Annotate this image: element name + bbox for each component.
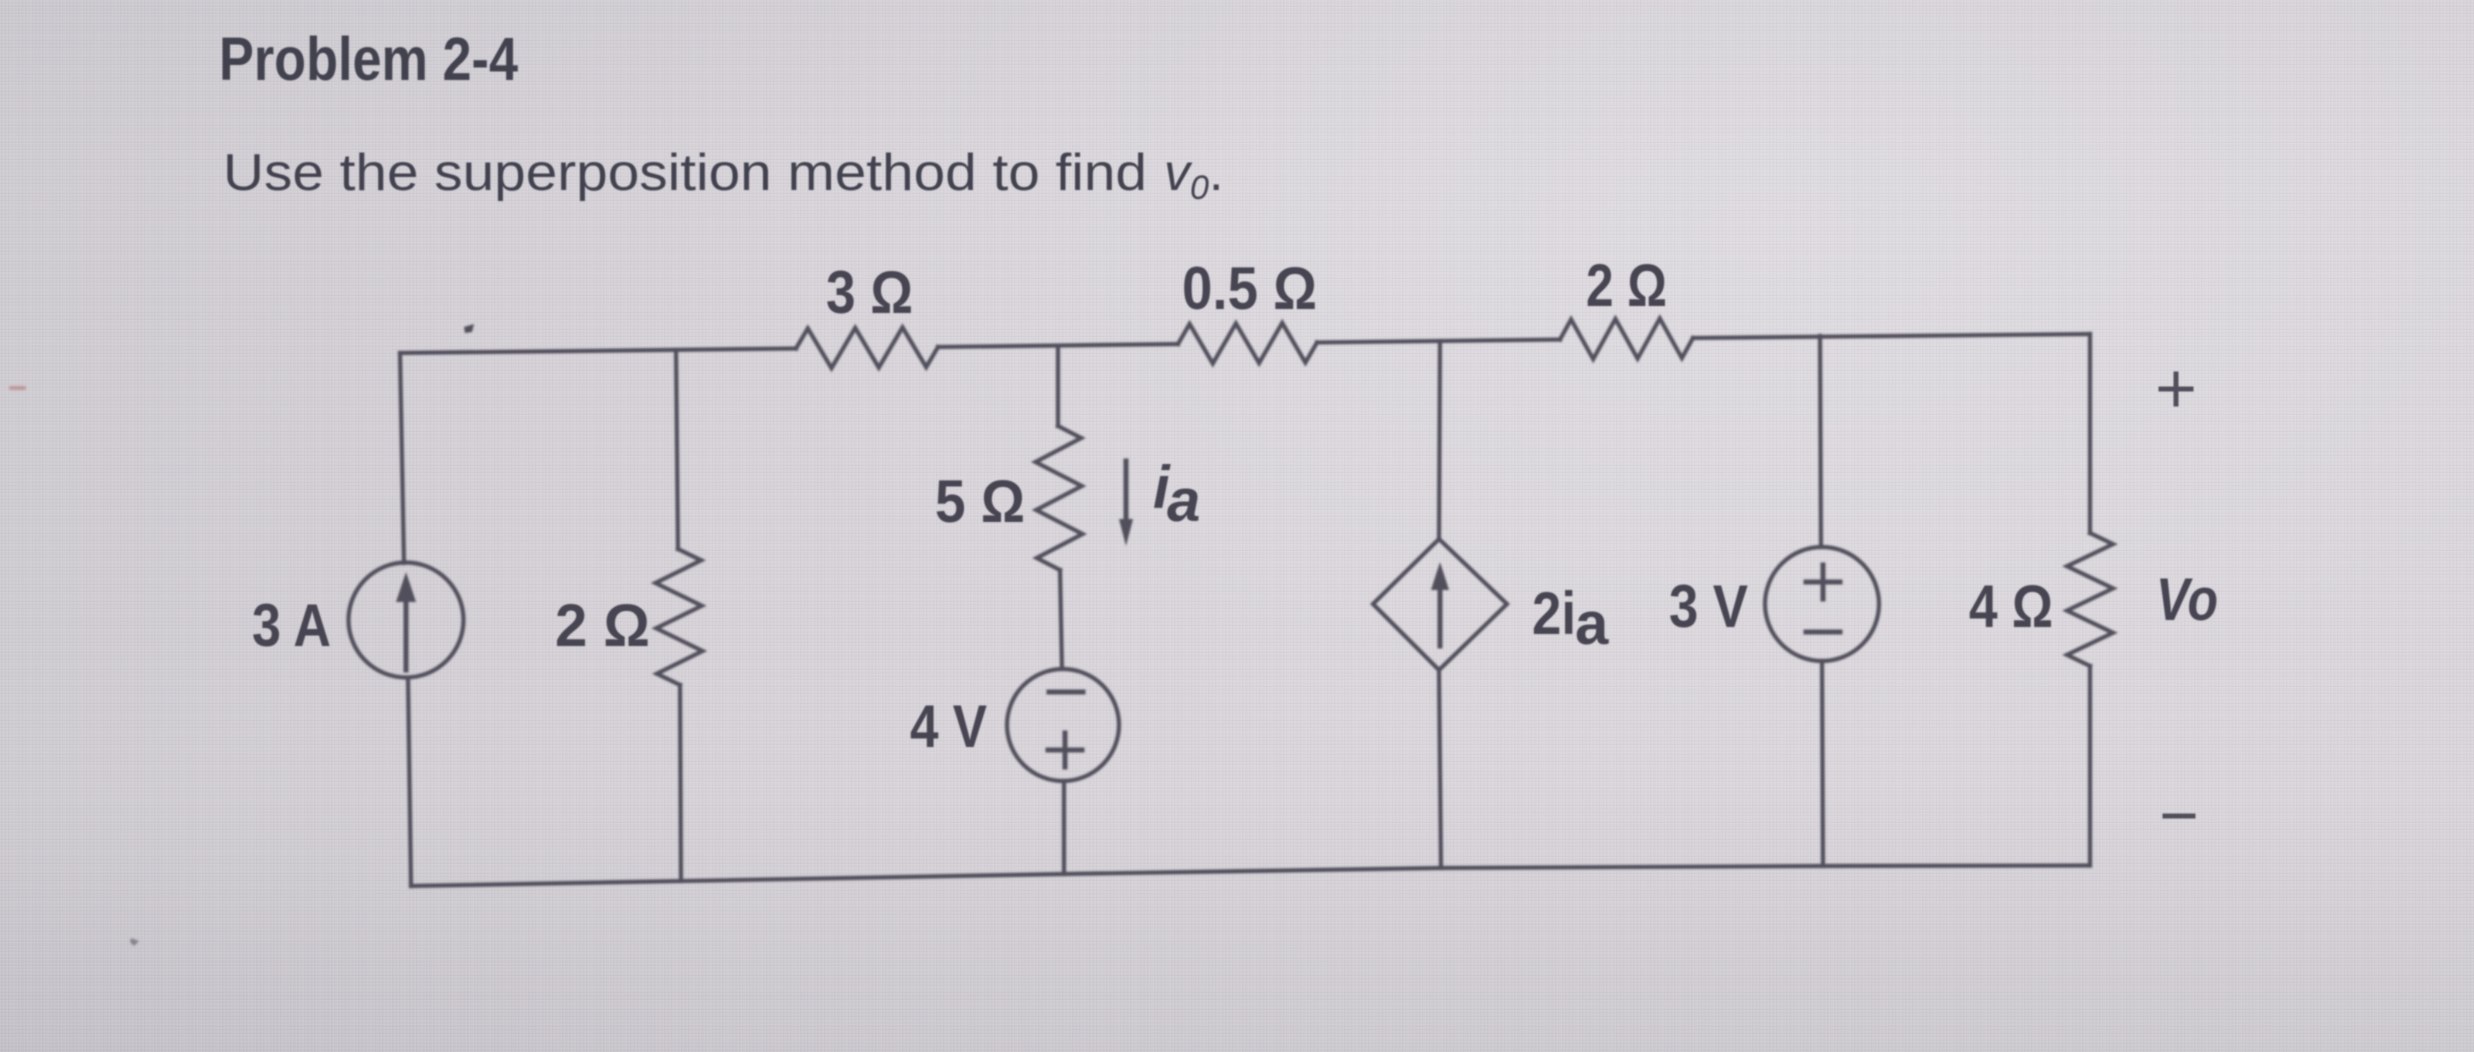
- plus sign inside 3V: [1806, 565, 1840, 599]
- svg-text:0.5 Ω: 0.5 Ω: [1182, 255, 1317, 322]
- current source I1 3A circle: [349, 563, 464, 678]
- wire top mid-right section: [1317, 340, 1560, 343]
- speck artifact near top wire: [464, 324, 474, 333]
- wire 3V branch top lead: [1820, 336, 1821, 547]
- resistor R 4ohm: [2067, 533, 2113, 666]
- wire diamond branch top lead: [1439, 341, 1440, 539]
- svg-text:a: a: [1575, 590, 1609, 657]
- wire right vertical top: [2088, 334, 2092, 533]
- wire 3V bottom lead: [1822, 661, 1823, 866]
- faint pen dot bottom left: [130, 938, 139, 946]
- wire 5ohm to 4V source: [1060, 570, 1062, 669]
- svg-text:.: .: [1209, 144, 1223, 202]
- svg-text:Problem 2-4: Problem 2-4: [219, 25, 518, 93]
- wire top mid section: [938, 344, 1178, 347]
- voltage source V 4V circle: [1007, 669, 1119, 781]
- wire left vertical top: [400, 353, 404, 563]
- wire 4V bottom lead: [1062, 781, 1066, 874]
- svg-text:v: v: [1164, 144, 1193, 202]
- minus sign of Vo: [2165, 814, 2193, 819]
- plus sign of Vo: [2161, 374, 2191, 404]
- svg-text:Vo: Vo: [2156, 566, 2218, 633]
- wire left vertical bottom: [408, 678, 411, 886]
- svg-text:3 V: 3 V: [1669, 573, 1748, 640]
- wire bottom: [411, 866, 2090, 887]
- resistor R 2ohm top: [1560, 318, 1693, 359]
- resistor R 2ohm left: [656, 549, 703, 685]
- svg-text:4 Ω: 4 Ω: [1969, 573, 2053, 640]
- wire diamond bottom lead: [1439, 670, 1441, 868]
- voltage source V 3V circle: [1765, 547, 1879, 661]
- minus sign inside 3V: [1806, 630, 1840, 635]
- svg-text:2 Ω: 2 Ω: [555, 592, 650, 659]
- reddish mark left edge: [9, 386, 26, 390]
- wire right vertical bottom: [2088, 666, 2092, 866]
- svg-text:5 Ω: 5 Ω: [935, 468, 1025, 535]
- svg-text:0: 0: [1190, 169, 1209, 207]
- wire top left section: [400, 349, 796, 354]
- svg-text:Use the superposition method t: Use the superposition method to find: [223, 144, 1147, 202]
- arrow inside diamond: [1431, 562, 1449, 646]
- wire 2ohm branch top lead: [676, 350, 678, 549]
- plus sign inside 4V: [1048, 733, 1082, 767]
- svg-text:3 A: 3 A: [252, 592, 331, 659]
- dependent source 2ia diamond: [1373, 539, 1507, 670]
- wire top right section: [1693, 334, 2090, 338]
- svg-text:2 Ω: 2 Ω: [1586, 252, 1667, 319]
- resistor R 3ohm: [796, 327, 938, 368]
- svg-text:2i: 2i: [1532, 580, 1576, 647]
- svg-text:3 Ω: 3 Ω: [826, 259, 913, 326]
- wire 5ohm branch top lead: [1056, 346, 1060, 426]
- resistor R 0.5ohm: [1178, 323, 1317, 364]
- wire 2ohm branch bottom lead: [680, 685, 681, 881]
- svg-text:a: a: [1167, 467, 1200, 534]
- resistor R 5ohm: [1036, 426, 1083, 570]
- current arrow ia: [1119, 461, 1133, 546]
- arrow of 3A source: [396, 572, 416, 670]
- minus sign inside 4V: [1049, 690, 1083, 695]
- svg-text:4 V: 4 V: [910, 693, 987, 760]
